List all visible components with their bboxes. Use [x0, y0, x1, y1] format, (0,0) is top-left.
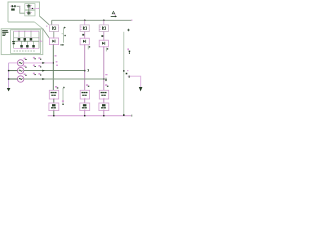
callout ray B from box1 to leg1 switch block — [40, 16, 50, 25]
right bus wire — [38, 31, 40, 48]
neutral junction 1 — [8, 70, 9, 71]
current arrow glyph below D1 — [60, 44, 64, 46]
leg3 phase wire — [103, 47, 105, 91]
wire T3 to D3 — [103, 32, 105, 41]
gate glyph leg2 — [82, 34, 84, 36]
current arrow on phase B — [42, 70, 45, 72]
AC source Va — [17, 60, 23, 66]
bus node dot — [31, 31, 32, 32]
switch block S_b1 (leg2 bottom upper) — [80, 90, 89, 99]
rail junction node leg3 bottom — [103, 115, 104, 116]
plus sign v_dc — [127, 29, 129, 31]
leg1 tap label — [56, 65, 58, 66]
junction dot — [31, 41, 32, 42]
leg1 phase wire — [52, 45, 54, 91]
bus node dot — [27, 48, 28, 49]
box2 inner subsystem frame — [11, 30, 41, 54]
wire T1 to D1 — [53, 32, 55, 39]
node b junction — [84, 70, 85, 71]
pin dot — [18, 5, 21, 8]
phase B wire — [24, 70, 85, 72]
label of source V1 — [11, 9, 15, 11]
source glyph in box2 — [12, 41, 15, 44]
output port dot — [40, 41, 41, 42]
upper rail wire — [14, 37, 39, 39]
leg1 tap label — [55, 55, 57, 56]
switch block S_a1 (leg1 bottom upper) — [49, 90, 58, 99]
lower switch S6 — [32, 41, 35, 47]
phase label cluster row3 i_c — [33, 73, 36, 75]
callout ray C from box2 to leg1 block2 — [43, 29, 50, 38]
wire between bottom blocks leg1 — [53, 99, 55, 103]
phase A wire — [24, 62, 54, 64]
current arrow on phase C — [42, 78, 45, 80]
stub bus to Vb — [9, 70, 18, 72]
phase label cluster row2 i_b — [33, 65, 36, 67]
leg2 phase wire — [84, 45, 86, 91]
junction dot — [19, 41, 20, 42]
lower switch S4 — [20, 41, 23, 47]
upper switch S3 — [30, 31, 33, 40]
capacitor sub-block C1 frame — [25, 4, 35, 10]
IGBT block T2 (leg2 top) — [80, 20, 89, 31]
DC positive rail — [52, 19, 132, 21]
phase C wire — [24, 78, 104, 80]
detail box 1 frame (DC-link capacitor detail) — [8, 2, 40, 22]
bus node dot — [33, 48, 34, 49]
node c junction — [103, 78, 104, 79]
node a junction — [53, 62, 54, 63]
v_dc label — [127, 48, 130, 53]
tap arrow label leg3 — [105, 78, 107, 81]
diode block D1 (leg1) — [49, 38, 58, 45]
phase label cluster row1 v_a — [24, 58, 27, 60]
IGBT block T1 (leg1 top) — [49, 25, 59, 32]
diode block D3 (leg3) — [99, 40, 108, 47]
phase label cluster row1 i_a — [33, 57, 36, 59]
wire to bottom rail leg2 — [84, 111, 86, 116]
label S_b1 — [86, 84, 89, 86]
rail junction node leg3 — [103, 20, 104, 21]
tap label leg3 — [105, 74, 107, 75]
rail junction node leg2 bottom — [84, 115, 85, 116]
wire between bottom blocks leg2 — [84, 99, 86, 103]
bus node dot — [21, 48, 22, 49]
annotation glyph leg3 — [106, 48, 108, 52]
stub bus to Va — [9, 62, 18, 64]
DC negative rail — [48, 115, 132, 117]
callout ray A from box1 to box2 corner — [35, 22, 43, 29]
voltage annotation bracket leg1 top — [62, 27, 66, 43]
phase label cluster row1 arrow label — [38, 57, 41, 59]
neutral junction 2 — [8, 78, 9, 79]
IGBT block T3 (leg3 top) — [99, 20, 108, 31]
wire between bottom blocks leg3 — [103, 99, 105, 103]
upper switch S2 — [24, 31, 27, 40]
junction bottom dot on v_dc line — [123, 114, 125, 116]
switch block S_c2 (leg3 bottom lower) — [99, 103, 109, 111]
pin dot — [18, 7, 21, 10]
small pink mark near neutral — [127, 70, 128, 71]
ground arrow left — [7, 88, 11, 91]
label S_c1 — [105, 84, 108, 86]
phase label cluster row2 v_b — [24, 65, 27, 67]
AC source Vc — [17, 76, 23, 82]
label S_a1 — [55, 86, 58, 89]
rail junction node leg2 — [84, 20, 85, 21]
wire T2 to D2 — [84, 32, 86, 39]
current measurement arrow i_dc — [111, 11, 117, 17]
phase label cluster row2 arrow label — [38, 65, 41, 67]
left DC feed wire — [13, 31, 15, 48]
current arrow on phase A — [42, 62, 45, 64]
phase label cluster row3 arrow label — [38, 73, 41, 75]
bottom bus wire (pink) — [14, 47, 39, 49]
upper switch S1 — [18, 31, 21, 40]
lower switch S5 — [26, 41, 29, 47]
box2 title text — [2, 30, 8, 36]
gate glyph leg3 — [101, 35, 103, 37]
wire source to capacitor bank — [17, 6, 25, 13]
rail drop wire to leg1 — [51, 20, 53, 25]
AC source Vb — [17, 67, 23, 73]
tap label leg2 — [88, 69, 89, 72]
midpoint tap wire — [29, 7, 39, 9]
capacitor sub-block C2 frame — [25, 10, 35, 16]
rail open end port — [131, 19, 132, 21]
rail junction node leg1 bottom — [53, 115, 54, 116]
switch block S_b2 (leg2 bottom lower) — [80, 103, 90, 111]
wire to bottom rail leg3 — [103, 111, 105, 116]
phase label cluster row3 v_c — [24, 74, 27, 76]
junction dot on v_dc line — [123, 70, 124, 71]
detail box 2 frame (bridge detail) — [1, 29, 43, 55]
midpoint port — [38, 7, 39, 10]
voltage bracket leg1 bottom — [62, 87, 65, 105]
annotation glyph leg2 — [88, 46, 90, 50]
v_dc measurement line — [123, 32, 125, 115]
DC voltage source V1 inside box1 — [10, 5, 17, 7]
gate wire — [14, 50, 36, 52]
neutral wire to ground — [128, 76, 141, 87]
switch block S_a2 (leg1 bottom lower) — [49, 103, 59, 111]
midpoint node dot — [32, 8, 33, 9]
bus node dot — [24, 31, 25, 32]
top bus wire (pink) — [14, 30, 39, 32]
neutral bus wire — [8, 63, 10, 88]
rail end tick — [131, 115, 132, 117]
capacitor C2 — [26, 12, 31, 14]
right bus node dot — [39, 37, 40, 38]
wire to bottom rail leg1 — [53, 111, 55, 116]
tick at neutral wire start — [128, 76, 131, 78]
capacitor C1 — [26, 5, 31, 7]
bus node dot — [19, 31, 20, 32]
junction dot — [24, 41, 25, 42]
diode block D2 (leg2) — [80, 38, 89, 45]
switch block S_c1 (leg3 bottom upper) — [99, 90, 108, 99]
leg1 tap label — [56, 61, 58, 62]
output stub — [39, 40, 42, 42]
ground arrow right — [139, 87, 143, 91]
capacitor bank wire — [28, 4, 30, 15]
neutral label n — [126, 73, 128, 75]
middle bus wire — [14, 40, 39, 42]
stub bus to Vc — [9, 78, 18, 80]
node marker on ray B — [46, 26, 47, 27]
